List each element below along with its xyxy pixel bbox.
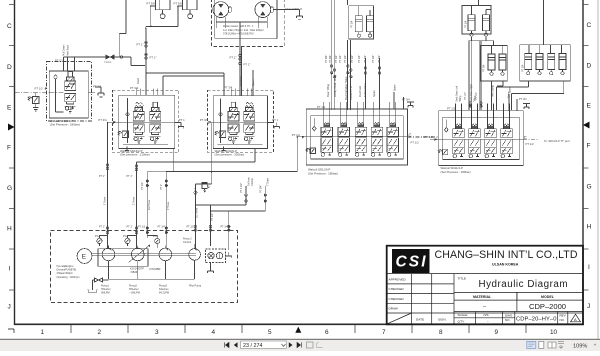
continuous-view icon [558, 342, 564, 349]
bank L2 section 2 [244, 102, 255, 143]
wire pilot staircase A [195, 196, 246, 206]
drain DM (Drain M/D) [273, 10, 299, 16]
grid letters right [587, 22, 592, 310]
svg-text:Spare: Spare [394, 84, 397, 91]
svg-text:P: P [434, 137, 437, 142]
bank R1 P line [297, 136, 408, 138]
bank R2 drain top [523, 104, 530, 109]
cylinder CYL1 (top left) [151, 0, 170, 19]
hose line 4 (P3 suction) [165, 171, 167, 231]
svg-text:C: C [7, 23, 12, 30]
svg-text:10: 10 [550, 329, 558, 336]
svg-text:J: J [587, 303, 590, 310]
hose line 2 (P2 suction) [136, 162, 138, 231]
spare/drain stubs bank R2 [509, 94, 517, 111]
svg-text:PT 1/2": PT 1/2" [372, 55, 375, 63]
pump connecting wires [108, 231, 229, 250]
engine E [77, 249, 92, 264]
svg-text:PT 1/2": PT 1/2" [358, 55, 361, 63]
svg-text:PT 3/8: PT 3/8 [174, 2, 183, 6]
grid ticks bottom [71, 325, 526, 333]
svg-text:Rotary Head "Wing: Rotary Head "Wing [333, 75, 337, 97]
bank R1 sections [321, 102, 333, 156]
svg-text:PT 1": PT 1" [99, 175, 105, 178]
svg-text:CSI: CSI [396, 254, 427, 271]
svg-text:Q’TY: Q’TY [458, 320, 465, 324]
bottom frame border [14, 323, 584, 325]
gauge PG3 [155, 238, 160, 246]
pilot filter block [206, 249, 226, 262]
valve V1 shut-off (bowtie) [106, 55, 115, 60]
svg-text:J: J [8, 304, 11, 311]
svg-text:PT 1/4: PT 1/4 [522, 64, 525, 72]
page right edge [597, 0, 599, 339]
bank L2 internal gallery + check valve [219, 99, 223, 144]
svg-text:C: C [587, 22, 592, 29]
filter drain [208, 267, 214, 273]
svg-text:To/Out PT A: To/Out PT A [349, 86, 353, 100]
single-page-view icon (active) [527, 341, 536, 348]
bank L2 Walvoil SD16/2-P box [213, 96, 267, 149]
svg-text:T"Drain: T"Drain [267, 177, 270, 186]
svg-text:PT 1/2: PT 1/2 [526, 142, 535, 146]
svg-text:(Set Pressure : 160bar): (Set Pressure : 160bar) [441, 170, 471, 174]
wire pilot staircase B [211, 196, 266, 212]
supply riser pair B [348, 0, 351, 110]
svg-text:Pump2: Pump2 [129, 285, 138, 288]
drain tank under engine [88, 290, 98, 293]
rotated function labels row [326, 75, 376, 100]
pump P3 [159, 248, 172, 261]
actuator cluster C3 box [481, 41, 508, 81]
bank R2 inner frame [443, 117, 519, 160]
svg-text:PT 1": PT 1" [127, 226, 133, 229]
svg-text:1"Hose: 1"Hose [103, 196, 106, 205]
svg-text:1/2"Hose: 1/2"Hose [148, 199, 151, 210]
svg-text:PT 1": PT 1" [244, 63, 251, 67]
valve PRV pilot reducing [202, 182, 209, 192]
bank L2 bottom bus [218, 144, 263, 146]
bank L2 relief [215, 131, 226, 137]
svg-text:PT 1": PT 1" [127, 175, 133, 178]
toolbar background [0, 340, 600, 351]
bank L1 right port PT 1 [175, 121, 181, 123]
pump drains down [109, 260, 195, 279]
svg-text:8: 8 [439, 329, 443, 336]
wire pilot line with shutoff [64, 57, 146, 66]
svg-text:4: 4 [212, 329, 216, 336]
svg-text:H: H [7, 226, 12, 233]
drive shaft [92, 254, 196, 256]
svg-text:Rod Cartridge "Wing: Rod Cartridge "Wing [344, 76, 348, 100]
left frame border [14, 0, 16, 325]
svg-text:Control: Control [251, 178, 254, 186]
tandem pump housing [98, 249, 148, 267]
svg-text:PT 3/4: PT 3/4 [130, 86, 139, 90]
svg-text:E: E [587, 103, 592, 110]
grid ticks right [583, 5, 589, 291]
svg-text:"Wing: "Wing [459, 95, 462, 102]
svg-text:PT 1/4: PT 1/4 [483, 64, 486, 72]
bank L1 section 1 [133, 102, 144, 143]
svg-text:CHECKED: CHECKED [389, 297, 405, 301]
svg-text:To: SD11/4-P "P" port: To: SD11/4-P "P" port [544, 139, 570, 143]
accumulator cluster box TOP-A [349, 6, 374, 39]
svg-text:PT 1": PT 1" [137, 43, 144, 47]
svg-text:PT 1: PT 1 [272, 118, 278, 122]
actuator cluster C4 box [520, 0, 570, 81]
svg-text:E: E [7, 105, 12, 112]
wire pull-down drop from top [119, 0, 126, 57]
svg-text:CDP–20–HY–0: CDP–20–HY–0 [516, 317, 557, 323]
svg-text:P: P [113, 120, 116, 125]
bank R2 relief [438, 149, 447, 155]
hose line 7 (drain) [228, 211, 230, 231]
svg-text:P: P [45, 86, 48, 91]
bank R1 inner frame [311, 116, 403, 159]
svg-text:1: 1 [41, 329, 45, 336]
svg-text:PT 3/4: PT 3/4 [200, 118, 209, 122]
svg-text:1"Hose: 1"Hose [167, 201, 170, 210]
svg-text:P: P [208, 120, 211, 125]
svg-text:(Set pressure : 320bar): (Set pressure : 320bar) [215, 153, 245, 157]
motor M1 (rotary head) [213, 2, 231, 29]
wire L1 tank drop [173, 149, 175, 172]
wire stubs above bank L2 sections [231, 89, 251, 96]
svg-text:PT 1": PT 1" [230, 56, 237, 60]
svg-text:Rear "Wing: Rear "Wing [326, 83, 330, 97]
bank L1 relief [118, 131, 129, 137]
centering arrow bottom [295, 327, 301, 333]
fittings on supply risers [330, 65, 333, 68]
svg-text:Spare: Spare [372, 90, 376, 97]
bank R2 outer box [439, 111, 524, 166]
bank L1 internal gallery + check valve [126, 98, 130, 143]
grid ticks left [9, 5, 15, 291]
wire pilot feed header [147, 170, 297, 172]
svg-text:H: H [587, 224, 592, 231]
svg-text:PT 3/4: PT 3/4 [93, 85, 102, 89]
svg-text:D: D [7, 64, 12, 71]
svg-text:DWG: DWG [505, 314, 513, 318]
supply riser pair A [331, 0, 334, 110]
bank L1 bottom bus [123, 144, 168, 146]
svg-text:Feed: Feed [136, 78, 140, 84]
page bottom edge [0, 338, 600, 340]
grid numbers bottom [41, 329, 558, 336]
fitting pair PT 1" lower [145, 53, 148, 56]
svg-text:(Set pressure : 210bar): (Set pressure : 210bar) [120, 153, 150, 157]
svg-text:I: I [588, 264, 590, 271]
svg-text:PT 1/2: PT 1/2 [138, 226, 146, 229]
wire P-line to left frame (dash-dot) [15, 92, 65, 94]
svg-text:MODEL: MODEL [541, 295, 555, 299]
svg-text:(Set Pressure : 180bar): (Set Pressure : 180bar) [308, 172, 338, 176]
svg-text:PT 1/2": PT 1/2" [339, 55, 342, 63]
svg-text:PT 3/4: PT 3/4 [158, 226, 166, 229]
svg-text:CHANG–SHIN INT’L CO.,LTD: CHANG–SHIN INT’L CO.,LTD [435, 249, 578, 261]
svg-text:F: F [7, 145, 11, 152]
svg-text:PT 3/8: PT 3/8 [147, 2, 156, 6]
wire cylinders to main line [146, 6, 178, 28]
bank L2 P line [212, 121, 268, 123]
svg-text:DATE: DATE [416, 318, 424, 322]
prev-page button [234, 342, 238, 348]
svg-text:PT 3/4": PT 3/4" [221, 226, 229, 229]
svg-text:E: E [82, 254, 87, 261]
bank L1 outer dashed [113, 90, 179, 152]
bank R2 sections [453, 104, 465, 158]
svg-text:Pilot Pump: Pilot Pump [189, 285, 202, 288]
wire P drop from bank R1 to pilot feed [167, 137, 298, 172]
page number box [241, 341, 287, 348]
svg-text:PT 1/2": PT 1/2" [187, 226, 195, 229]
svg-text:G: G [7, 185, 12, 192]
pump P1 [102, 248, 115, 261]
fitting pair PT 1" on rotary riser [239, 54, 242, 57]
spare/drain stubs bank R1 [394, 92, 404, 109]
svg-text:(Set Pressure : 180bar): (Set Pressure : 180bar) [50, 123, 80, 127]
svg-text:HyundaiEngine: HyundaiEngine [57, 265, 75, 268]
svg-text:1st: 34kn 70rpm / 2nd : Max 22: 1st: 34kn 70rpm / 2nd : Max 220pm [223, 28, 264, 32]
bank L1 P line [108, 121, 175, 123]
bank R2 P line [430, 138, 523, 140]
wire rotary risers down [216, 17, 267, 96]
svg-text:PT 3/4: PT 3/4 [519, 97, 527, 101]
bank R1 internal bus [311, 157, 403, 159]
small cylinder [355, 16, 362, 37]
svg-text:PT 1/2: PT 1/2 [447, 107, 456, 111]
svg-text:PT 1/2": PT 1/2" [364, 55, 367, 63]
svg-text:PT 1/2: PT 1/2 [292, 133, 301, 137]
pilot pump P4 [189, 249, 201, 261]
corner crop mark bottom-left [8, 329, 14, 333]
CSI logo [392, 249, 430, 273]
fitting on pilot line [120, 56, 123, 59]
drain symbol right [226, 252, 232, 258]
svg-text:K3V140DTP: K3V140DTP [130, 268, 144, 271]
bank R1 relief [306, 148, 315, 154]
svg-text:2/Wear/400pm: 2/Wear/400pm [57, 272, 73, 275]
svg-text:DRAW: DRAW [389, 307, 398, 311]
svg-text:MATERIAL: MATERIAL [473, 295, 492, 299]
svg-text:Pile-Clamp: Pile-Clamp [492, 85, 495, 97]
drain D0 [95, 87, 104, 97]
bottom row labels [458, 313, 566, 324]
svg-text:7: 7 [382, 329, 386, 336]
svg-text:Hold Back: Hold Back [67, 44, 70, 56]
gauge PG2 [125, 238, 130, 246]
wire rotation bus (double U) [147, 73, 224, 96]
motor M2 (rotary head) [255, 2, 273, 29]
svg-text:PT 1/2": PT 1/2" [141, 182, 144, 190]
first-page button [225, 342, 230, 347]
svg-text:A: A [574, 317, 577, 322]
pump unit dashed enclosure [51, 231, 238, 303]
bank L1 Walvoil SD16/2-P box [119, 95, 175, 148]
cylinder CYL2 (top left) [178, 0, 197, 19]
svg-text:K3V63BR: K3V63BR [150, 268, 161, 271]
svg-text:09ILPM: 09ILPM [101, 292, 110, 295]
svg-text:ULSAN KOREA: ULSAN KOREA [492, 262, 519, 266]
actuator cluster C2 box [462, 0, 491, 36]
svg-text:–: – [483, 304, 487, 310]
svg-text:Operating : 1400rpm: Operating : 1400rpm [57, 276, 80, 279]
wire stubs above bank L1 sections [137, 89, 157, 96]
svg-text:PT 1/2: PT 1/2 [317, 105, 326, 109]
wires deck base [469, 37, 493, 110]
svg-text:CHECKED: CHECKED [389, 287, 405, 291]
svg-text:PT 3/4": PT 3/4" [260, 185, 263, 193]
svg-text:~ 09ILPM: ~ 09ILPM [129, 292, 140, 295]
svg-text:TITLE: TITLE [458, 277, 466, 281]
title block outer border [387, 246, 583, 325]
svg-text:PT 1/2": PT 1/2" [211, 213, 214, 221]
bank L1 section 2 [150, 102, 161, 143]
svg-text:3: 3 [155, 329, 159, 336]
svg-text:CDP–2000: CDP–2000 [529, 302, 566, 311]
svg-text:APPROVED: APPROVED [389, 278, 407, 282]
centering arrow left [8, 124, 15, 131]
gauge PG1 [97, 238, 102, 246]
rotary head inner frame [215, 0, 277, 39]
hose line 1 (P1 suction) [107, 122, 109, 231]
svg-text:–: – [487, 320, 489, 324]
centering arrow right [583, 122, 590, 129]
svg-text:109%: 109% [573, 343, 587, 349]
svg-text:PT 1/2: PT 1/2 [35, 86, 44, 90]
rotated port labels row [325, 55, 381, 63]
wire bank L2 P drop [195, 122, 211, 184]
svg-text:63uches: 63uches [159, 288, 169, 291]
svg-text:PT 1/4: PT 1/4 [465, 20, 468, 28]
svg-text:To/Out PT A: To/Out PT A [363, 83, 367, 97]
svg-text:PT 3/4: PT 3/4 [402, 98, 410, 102]
drain stub bank L2 [221, 147, 225, 153]
svg-text:Pump1: Pump1 [101, 285, 110, 288]
next-page button [289, 342, 293, 348]
pump P2 (variable) [131, 248, 144, 261]
svg-text:PT 1/2": PT 1/2" [464, 92, 467, 100]
main spool section [65, 72, 76, 113]
svg-text:Y-0-0-L: Y-0-0-L [104, 62, 112, 64]
facing-pages icon [539, 341, 544, 348]
svg-text:Rotation: Rotation [239, 76, 243, 86]
fitting pair PT 1" upper [145, 41, 148, 44]
svg-text:23 / 274: 23 / 274 [243, 343, 262, 349]
svg-text:PT 3/4: PT 3/4 [98, 118, 107, 122]
svg-text:1/2"Hose: 1/2"Hose [196, 207, 199, 218]
svg-text:<9B19: <9B19 [130, 271, 138, 274]
svg-text:G: G [587, 184, 592, 191]
svg-text:6: 6 [325, 329, 329, 336]
svg-text:Drain M/D*1.8: Drain M/D*1.8 [286, 7, 303, 11]
hose line 6 (filter) [210, 205, 212, 231]
svg-text:SIGN.: SIGN. [438, 318, 447, 322]
svg-text:D: D [587, 63, 592, 70]
svg-text:PT 1/2": PT 1/2" [351, 55, 354, 63]
bank B0 outer dash-dot box [47, 62, 92, 122]
wires clusters to bank R2 [492, 81, 564, 110]
svg-text:SCALE: SCALE [458, 313, 468, 317]
history forward icon [317, 342, 323, 348]
hose line 5 (pilot pump) [194, 184, 196, 231]
revision triangle [571, 314, 581, 322]
svg-text:P: P [302, 135, 305, 140]
wire L2 tank return [137, 149, 255, 163]
hose line 3 (gauge) [146, 171, 148, 231]
svg-text:Spare: Spare [508, 91, 511, 98]
svg-text:PT 1/2": PT 1/2" [378, 55, 381, 63]
title block left column labels [389, 278, 447, 322]
wire bank B0 to drain [88, 92, 95, 94]
svg-text:1"Hose: 1"Hose [132, 196, 135, 205]
svg-text:HiSucter: HiSucter [129, 288, 139, 291]
svg-text:PT 1/2: PT 1/2 [411, 141, 420, 145]
svg-text:PT 3/4": PT 3/4" [329, 55, 332, 63]
svg-text:378.2U/Min <4*10.8)E,PSI: 378.2U/Min <4*10.8)E,PSI [223, 32, 254, 36]
rotary head dashed box [212, 0, 285, 46]
svg-text:PT 1": PT 1" [150, 56, 157, 60]
svg-text:NO.: NO. [560, 318, 566, 322]
small cylinder [367, 16, 374, 37]
bank L2 right port PT 1 [268, 121, 274, 123]
svg-text:2: 2 [98, 329, 102, 336]
svg-text:Pump3: Pump3 [159, 285, 168, 288]
svg-text:PT 1/2": PT 1/2" [344, 55, 347, 63]
svg-text:Rotary Head : S/R:3.76 : 1: Rotary Head : S/R:3.76 : 1 [223, 24, 254, 28]
svg-text:Control: Control [183, 241, 192, 244]
bank B0 Walvoil SD1/1/1-P box [49, 71, 88, 118]
bank R2 internal bus [443, 158, 519, 160]
svg-text:REV: REV [560, 314, 566, 318]
svg-text:PT 1/4: PT 1/4 [350, 20, 353, 28]
svg-text:"Wing: "Wing [474, 95, 477, 102]
svg-text:NO.: NO. [505, 318, 511, 322]
svg-text:N/S: N/S [484, 313, 489, 317]
relief valve RV0 [28, 96, 39, 111]
drain stub bank L1 [125, 147, 129, 153]
svg-text:Hydraulic Diagram: Hydraulic Diagram [479, 279, 568, 290]
svg-text:DrexanlPU%B78): DrexanlPU%B78) [57, 269, 77, 272]
svg-text:PT 1 1/2": PT 1 1/2" [240, 183, 243, 193]
svg-text:PT 1: PT 1 [179, 118, 185, 122]
suction shutoff valve [95, 278, 103, 282]
bank R1 check valve diamond [312, 118, 316, 131]
last-page button [297, 342, 302, 347]
svg-text:Pull Down /: Pull Down / [63, 44, 66, 56]
bank R1 drain top [407, 102, 414, 107]
svg-text:PT 1": PT 1" [99, 226, 105, 229]
svg-text:84.2LPM: 84.2LPM [159, 292, 169, 295]
svg-text:5: 5 [268, 329, 272, 336]
svg-text:PT 3/4": PT 3/4" [325, 55, 328, 63]
svg-text:HiSucter: HiSucter [101, 288, 111, 291]
history back icon [307, 342, 314, 348]
svg-text:I: I [9, 266, 11, 273]
title block lines [387, 274, 583, 325]
svg-text:PT 1/2": PT 1/2" [335, 55, 338, 63]
svg-text:F: F [587, 143, 591, 150]
svg-text:PT 1": PT 1" [160, 184, 163, 190]
wire main left riser (double) [145, 28, 147, 95]
svg-text:Rod Push: Rod Push [358, 85, 362, 97]
right frame border [582, 0, 584, 325]
bank R1 outer box [306, 109, 407, 165]
bank L2 outer dashed [208, 90, 274, 152]
book-view icon [548, 342, 556, 348]
bank R2 check valve diamond [445, 120, 449, 133]
